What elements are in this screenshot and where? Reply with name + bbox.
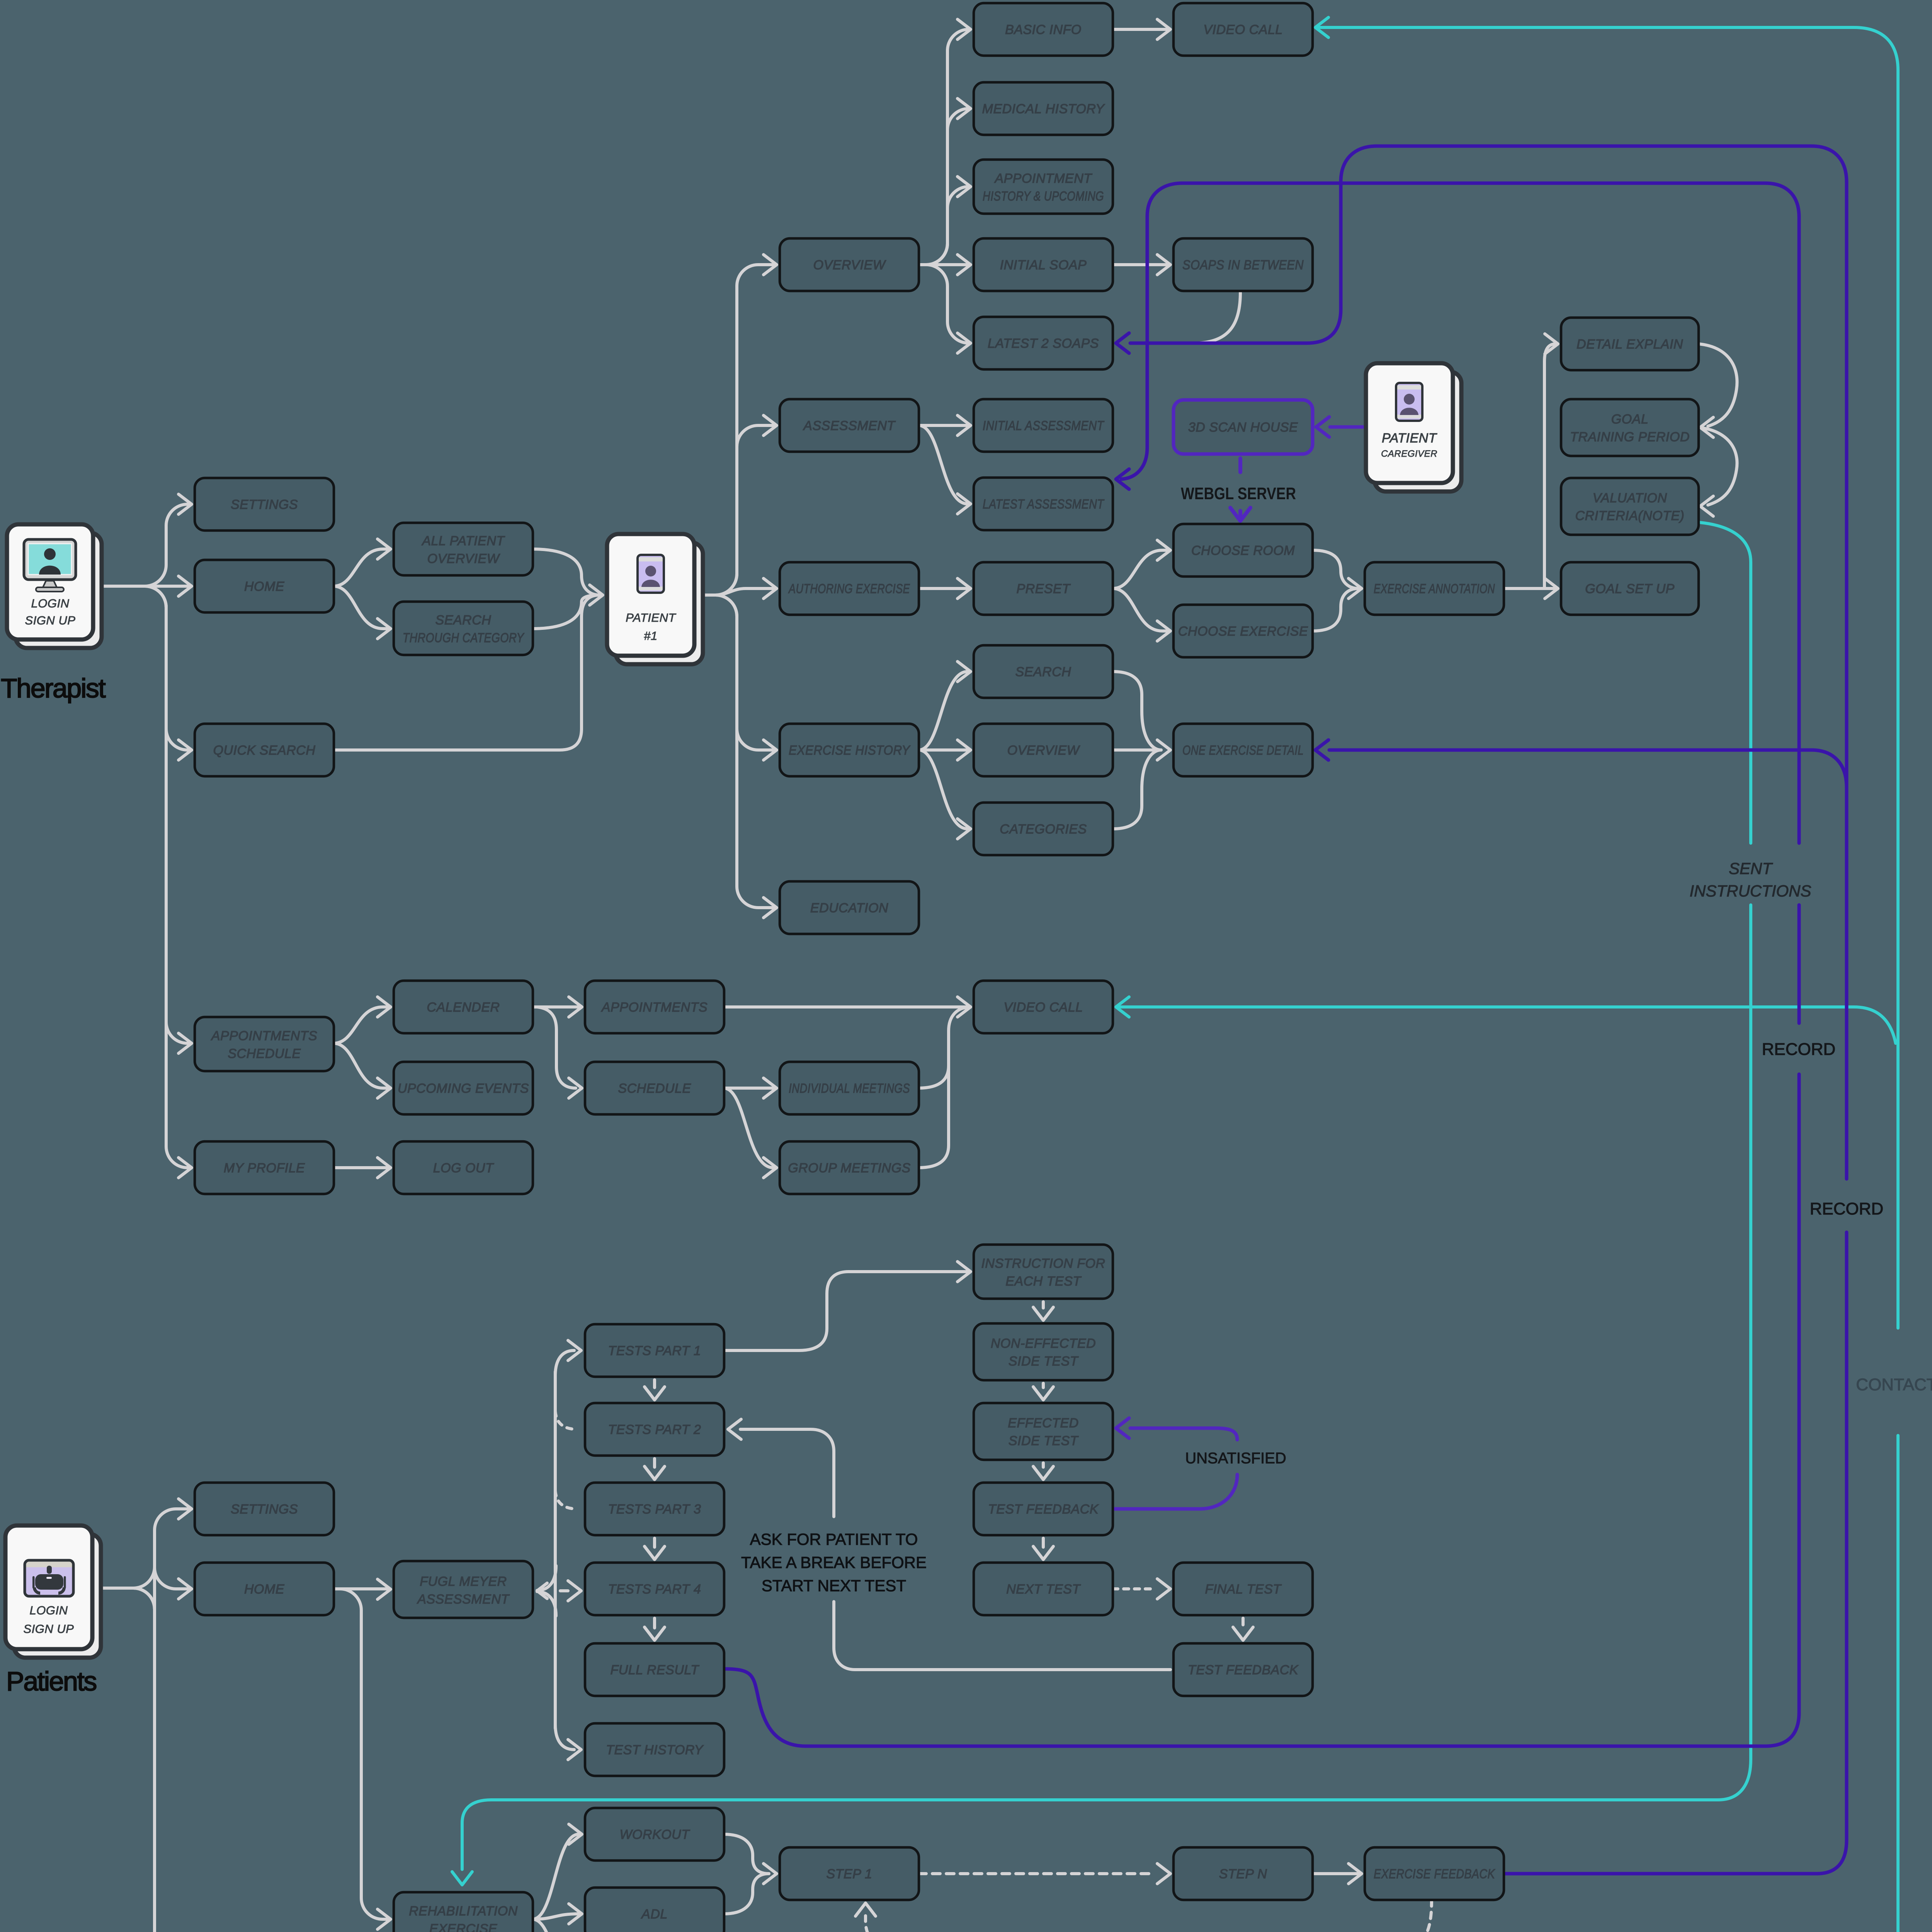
svg-text:LOGIN: LOGIN	[31, 597, 70, 610]
svg-text:SIGN UP: SIGN UP	[25, 614, 76, 627]
wire adl-to-step1	[724, 1864, 777, 1914]
svg-text:RECORD: RECORD	[1810, 1199, 1884, 1218]
box MY PROFILE	[195, 1141, 334, 1194]
wire chooseroom-to-annot	[1313, 550, 1359, 588]
svg-text:INSTRUCTION FOR: INSTRUCTION FOR	[981, 1256, 1105, 1271]
wire login-to-myprofile	[104, 586, 192, 1178]
box ADL	[585, 1888, 724, 1932]
box TESTS PART 4	[585, 1563, 724, 1615]
box EXERCISE HISTORY	[780, 724, 919, 776]
wire overview2-to-oned	[1113, 748, 1161, 752]
wire teal sent-instructions lower	[452, 905, 1751, 1885]
wire initialsoap-to-soapsinbetween	[1113, 255, 1170, 275]
svg-text:EXERCISE ANNOTATION: EXERCISE ANNOTATION	[1374, 582, 1495, 596]
svg-text:APPOINTMENTS: APPOINTMENTS	[211, 1029, 317, 1043]
wire chooseex-to-annot	[1313, 578, 1362, 631]
svg-text:BASIC INFO: BASIC INFO	[1005, 22, 1082, 37]
wire indigo record-B top	[1116, 146, 1847, 1179]
svg-text:ASSESSMENT: ASSESSMENT	[417, 1592, 510, 1607]
wire chain t4-full	[645, 1618, 665, 1640]
svg-text:TESTS PART 1: TESTS PART 1	[608, 1344, 701, 1358]
wire indigo record-B branch oned	[1315, 740, 1847, 787]
wire allpatient-to-p1	[532, 549, 600, 595]
svg-text:CALENDER: CALENDER	[427, 1000, 500, 1015]
wire plogin-to-home	[102, 1568, 192, 1609]
card therapist login	[7, 524, 102, 648]
box TESTS PART 3	[585, 1483, 724, 1535]
box FUGL MEYER ASSESSMENT	[394, 1561, 533, 1618]
wire p1-to-education	[705, 595, 777, 918]
box INDIVIDUAL MEETINGS	[780, 1062, 919, 1114]
svg-text:APPOINTMENT: APPOINTMENT	[994, 171, 1092, 186]
svg-text:MY PROFILE: MY PROFILE	[224, 1161, 305, 1175]
wire teal contact top	[1315, 17, 1898, 1328]
wire indigo record-A bottom	[724, 1074, 1799, 1746]
wire teal contact therapist-merge	[1116, 997, 1896, 1043]
wire soapsinbetween-curve	[1194, 293, 1240, 343]
wire apptsched-to-upcoming	[333, 1043, 391, 1098]
svg-text:OVERVIEW: OVERVIEW	[813, 258, 886, 272]
box APPOINTMENTS SCHEDULE	[195, 1017, 334, 1071]
wire apptsched-to-calender	[333, 997, 391, 1043]
wire indigo record-A top	[1116, 183, 1799, 843]
svg-text:VIDEO CALL: VIDEO CALL	[1003, 1000, 1083, 1015]
wire overview-to-medhistory	[919, 99, 971, 265]
wire overview-to-appthist	[919, 177, 971, 265]
wire calender-to-schedule	[537, 1007, 582, 1098]
svg-text:SCHEDULE: SCHEDULE	[618, 1081, 691, 1096]
wire fugl-junction-downarc	[537, 1592, 556, 1616]
svg-text:WORKOUT: WORKOUT	[619, 1827, 690, 1842]
arrow into fugl meyer	[537, 1583, 547, 1599]
svg-text:EDUCATION: EDUCATION	[810, 901, 888, 915]
wire groupmeet-to-videocall	[918, 1043, 949, 1168]
wire detail-to-goaltraining	[1699, 344, 1737, 437]
svg-text:FUGL MEYER: FUGL MEYER	[420, 1574, 507, 1589]
svg-text:PATIENT: PATIENT	[1382, 431, 1437, 446]
svg-text:TEST FEEDBACK: TEST FEEDBACK	[1188, 1663, 1299, 1677]
wire teal sent-instructions upper	[1699, 522, 1751, 843]
box GOAL TRAINING PERIOD	[1561, 399, 1699, 456]
svg-text:UPCOMING EVENTS: UPCOMING EVENTS	[398, 1081, 529, 1096]
box DETAIL EXPLAIN	[1561, 318, 1699, 370]
wire appointments-to-videocall	[724, 997, 971, 1017]
svg-text:OVERVIEW: OVERVIEW	[1007, 743, 1080, 758]
svg-text:SETTINGS: SETTINGS	[231, 497, 298, 512]
box OVERVIEW exercise-history	[974, 724, 1113, 776]
wire nexttest-to-finaltest	[1113, 1579, 1170, 1599]
svg-text:FULL RESULT: FULL RESULT	[610, 1663, 699, 1677]
svg-text:Patients: Patients	[6, 1666, 96, 1696]
box SEARCH	[974, 645, 1113, 698]
svg-text:ALL PATIENT: ALL PATIENT	[421, 534, 505, 548]
svg-text:CATEGORIES: CATEGORIES	[1000, 822, 1087, 837]
box INSTRUCTION FOR EACH TEST	[974, 1245, 1113, 1299]
wire purple caregiver-to-3dscan	[1316, 417, 1363, 437]
svg-text:TRAINING PERIOD: TRAINING PERIOD	[1570, 430, 1690, 444]
box INITIAL ASSESSMENT	[974, 399, 1113, 452]
wire home-to-searchcat	[333, 586, 391, 639]
svg-text:INDIVIDUAL MEETINGS: INDIVIDUAL MEETINGS	[789, 1081, 910, 1096]
svg-text:ONE EXERCISE DETAIL: ONE EXERCISE DETAIL	[1182, 743, 1304, 758]
svg-text:ASSESSMENT: ASSESSMENT	[803, 418, 896, 433]
box LOG OUT therapist	[394, 1141, 533, 1194]
svg-text:HOME: HOME	[244, 1582, 284, 1597]
svg-text:LATEST ASSESSMENT: LATEST ASSESSMENT	[983, 497, 1104, 512]
wire preset-to-chooseroom	[1113, 540, 1170, 588]
box SCHEDULE	[585, 1062, 724, 1114]
svg-text:AUTHORING EXERCISE: AUTHORING EXERCISE	[788, 582, 910, 596]
wire chain eff-fb	[1033, 1463, 1053, 1480]
box APPOINTMENTS	[585, 981, 724, 1033]
wire indigo record-B bottom	[1504, 1232, 1847, 1874]
wire searchcat-to-p1	[532, 595, 600, 629]
svg-text:APPOINTMENTS: APPOINTMENTS	[601, 1000, 707, 1015]
box AUTHORING EXERCISE	[780, 562, 919, 615]
box EXERCISE ANNOTATION	[1365, 562, 1504, 615]
box ALL PATIENT OVERVIEW	[394, 523, 533, 575]
svg-text:VALUATION: VALUATION	[1593, 491, 1667, 505]
wire calender-to-appointments	[532, 997, 582, 1017]
svg-text:NON-EFFECTED: NON-EFFECTED	[991, 1336, 1096, 1351]
box EXERCISE FEEDBACK	[1365, 1847, 1504, 1900]
card patient #1	[607, 534, 703, 664]
box ONE EXERCISE DETAIL	[1173, 724, 1313, 776]
svg-text:TESTS PART 4: TESTS PART 4	[608, 1582, 701, 1597]
box GOAL SET UP	[1561, 562, 1699, 615]
box TEST FEEDBACK 2	[1173, 1643, 1313, 1696]
svg-text:CAREGIVER: CAREGIVER	[1381, 449, 1437, 459]
wire categories-to-oned	[1113, 740, 1170, 829]
box VIDEO CALL top	[1173, 3, 1313, 56]
svg-text:LOGIN: LOGIN	[30, 1604, 68, 1617]
box VALUATION CRITERIA NOTE	[1561, 478, 1699, 535]
svg-text:INSTRUCTIONS: INSTRUCTIONS	[1690, 882, 1811, 900]
svg-text:CHOOSE ROOM: CHOOSE ROOM	[1191, 543, 1295, 558]
svg-text:Therapist: Therapist	[1, 673, 105, 703]
wire feedback2-loop-a	[834, 1602, 1170, 1670]
svg-text:HISTORY & UPCOMING: HISTORY & UPCOMING	[983, 189, 1104, 204]
wire phome-to-fugl	[333, 1579, 391, 1599]
box QUICK SEARCH	[195, 724, 334, 776]
svg-text:EXERCISE: EXERCISE	[429, 1922, 497, 1932]
box TEST HISTORY	[585, 1723, 724, 1776]
box VIDEO CALL therapist	[974, 981, 1113, 1033]
wire indigo record-A mid	[1798, 905, 1801, 1023]
wire chain t2-t3	[645, 1459, 665, 1480]
box OVERVIEW	[780, 238, 919, 291]
box CHOOSE ROOM	[1173, 524, 1313, 577]
wire authoring-to-preset	[919, 578, 971, 599]
wire rehab-to-adl	[532, 1904, 582, 1924]
box STEP N	[1173, 1847, 1313, 1900]
wire schedule-to-indmeet	[724, 1078, 777, 1098]
svg-text:TEST HISTORY: TEST HISTORY	[606, 1743, 704, 1757]
svg-text:SETTINGS: SETTINGS	[231, 1502, 298, 1517]
svg-text:EXERCISE FEEDBACK: EXERCISE FEEDBACK	[1374, 1867, 1495, 1881]
wire fugl-junction-uparc	[537, 1566, 556, 1590]
wire workout-to-step1	[724, 1834, 769, 1874]
wire login-to-home	[104, 576, 192, 596]
wire login-to-apptsched	[104, 586, 192, 1053]
box WORKOUT	[585, 1808, 724, 1861]
svg-text:WEBGL SERVER: WEBGL SERVER	[1181, 484, 1296, 503]
svg-text:LATEST 2 SOAPS: LATEST 2 SOAPS	[988, 336, 1099, 351]
box TESTS PART 2	[585, 1403, 724, 1456]
arrow webgl-to-chooseroom	[1230, 508, 1250, 521]
wire login-to-quicksearch	[104, 586, 192, 760]
svg-text:EFFECTED: EFFECTED	[1008, 1416, 1078, 1430]
svg-text:GOAL SET UP: GOAL SET UP	[1585, 582, 1675, 596]
svg-text:STEP N: STEP N	[1219, 1867, 1267, 1881]
svg-text:CHOOSE EXERCISE: CHOOSE EXERCISE	[1178, 624, 1308, 639]
svg-text:OVERVIEW: OVERVIEW	[427, 551, 500, 566]
box CHOOSE EXERCISE	[1173, 605, 1313, 657]
wire rehab-to-exhistp	[532, 1919, 582, 1932]
wire final-to-feedback2	[1233, 1618, 1253, 1640]
wire fugl-dash-tests2	[555, 1411, 577, 1429]
svg-text:SEARCH: SEARCH	[1015, 665, 1071, 679]
box TEST FEEDBACK	[974, 1483, 1113, 1535]
wire chain t3-t4	[645, 1538, 665, 1560]
box HOME	[195, 560, 334, 612]
svg-text:INITIAL SOAP: INITIAL SOAP	[1000, 258, 1087, 272]
svg-text:FINAL TEST: FINAL TEST	[1205, 1582, 1282, 1597]
wire fugl-to-testhistory	[555, 1725, 581, 1760]
svg-text:RECORD: RECORD	[1762, 1040, 1836, 1059]
svg-text:CRITERIA(NOTE): CRITERIA(NOTE)	[1575, 509, 1685, 523]
wire basicinfo-to-videocall	[1113, 19, 1170, 39]
svg-text:PRESET: PRESET	[1016, 582, 1071, 596]
wire annot-branch-detailexplain	[1544, 334, 1558, 587]
wire chain i-non	[1033, 1302, 1053, 1320]
wire fugl-to-tests1	[555, 1340, 581, 1376]
box HOME patients	[195, 1563, 334, 1615]
box INITIAL SOAP	[974, 238, 1113, 291]
box TESTS PART 1	[585, 1324, 724, 1377]
svg-text:ASK FOR PATIENT TO: ASK FOR PATIENT TO	[750, 1530, 918, 1548]
svg-text:QUICK SEARCH: QUICK SEARCH	[213, 743, 316, 758]
svg-text:EACH TEST: EACH TEST	[1005, 1274, 1082, 1289]
svg-text:TESTS PART 2: TESTS PART 2	[608, 1422, 701, 1437]
svg-text:HOME: HOME	[244, 579, 284, 594]
wire purple unsatisfied bottom	[1113, 1475, 1237, 1509]
wire fugl-row-dash	[560, 1589, 568, 1592]
box STEP 1	[780, 1847, 919, 1900]
box CALENDER	[394, 981, 533, 1033]
box ASSESSMENT	[780, 399, 919, 452]
wire chain non-eff	[1033, 1383, 1053, 1400]
wire teal contact bottom	[550, 1435, 1898, 1932]
wire p1-to-overview	[705, 255, 777, 595]
svg-text:PATIENT: PATIENT	[626, 611, 676, 624]
wire exhist-to-categories	[919, 750, 971, 839]
svg-text:REHABILITATION: REHABILITATION	[409, 1904, 518, 1918]
svg-text:LOG OUT: LOG OUT	[433, 1161, 494, 1175]
wire annot-to-goalsetup	[1504, 578, 1558, 599]
box BASIC INFO	[974, 3, 1113, 56]
svg-text:NEXT TEST: NEXT TEST	[1006, 1582, 1081, 1597]
box EFFECTED SIDE TEST	[974, 1403, 1113, 1460]
svg-text:MEDICAL HISTORY: MEDICAL HISTORY	[982, 102, 1105, 116]
box FULL RESULT	[585, 1643, 724, 1696]
svg-text:THROUGH CATEGORY: THROUGH CATEGORY	[403, 631, 525, 645]
wire goaltraining-to-valuation	[1699, 427, 1737, 516]
svg-text:SOAPS IN BETWEEN: SOAPS IN BETWEEN	[1182, 258, 1304, 272]
svg-text:GROUP MEETINGS: GROUP MEETINGS	[788, 1161, 910, 1175]
box PRESET	[974, 562, 1113, 615]
box NEXT TEST	[974, 1563, 1113, 1615]
card patients login	[5, 1526, 101, 1658]
wire overview-to-basicinfo	[919, 19, 971, 265]
svg-text:SCHEDULE: SCHEDULE	[228, 1046, 301, 1061]
wire fugl-trunk	[554, 1372, 557, 1728]
svg-text:EXERCISE HISTORY: EXERCISE HISTORY	[789, 743, 911, 758]
wire purple unsatisfied top	[1116, 1418, 1237, 1440]
svg-text:ADL: ADL	[641, 1907, 668, 1922]
box REHABILITATION EXERCISE	[394, 1892, 533, 1932]
wire chain fb-next	[1033, 1538, 1053, 1560]
wire indmeet-to-videocall	[918, 1007, 968, 1088]
wire tests1-to-instruction	[724, 1262, 971, 1350]
wire preset-to-chooseex	[1113, 588, 1170, 641]
wire chain t1-t2	[645, 1380, 665, 1400]
box GROUP MEETINGS	[780, 1141, 919, 1194]
wire myprofile-to-logout	[333, 1158, 391, 1178]
svg-text:UNSATISFIED: UNSATISFIED	[1185, 1450, 1286, 1467]
wire overview-to-initialsoap	[919, 255, 971, 275]
box FINAL TEST	[1173, 1563, 1313, 1615]
wire step1-to-stepn	[918, 1864, 1170, 1884]
wire phome-to-rehab	[333, 1589, 391, 1929]
wire stepn-to-exfeedback	[1313, 1864, 1362, 1884]
box LATEST 2 SOAPS	[974, 317, 1113, 369]
box SOAPS IN BETWEEN	[1173, 238, 1313, 291]
wire quicksearch-to-p1	[333, 585, 603, 750]
wire assessment-to-initassess	[919, 415, 971, 435]
wire plogin-to-myprofile	[102, 1588, 192, 1932]
box UPCOMING EVENTS	[394, 1062, 533, 1114]
wire home-to-allpatient	[333, 539, 391, 586]
wire plogin-to-apptsched	[102, 1588, 192, 1932]
box NON-EFFECTED SIDE TEST	[974, 1323, 1113, 1380]
box SETTINGS	[195, 478, 334, 531]
box CATEGORIES	[974, 803, 1113, 855]
wire plogin-to-settings	[102, 1499, 192, 1588]
wire rehab-to-workout	[532, 1824, 582, 1919]
box 3D SCAN HOUSE	[1173, 400, 1313, 454]
svg-text:3D SCAN HOUSE: 3D SCAN HOUSE	[1188, 420, 1298, 435]
wire purple 3dscan-dash	[1238, 458, 1242, 472]
svg-text:SENT: SENT	[1729, 859, 1773, 878]
wire fugl-dash-tests3	[555, 1491, 577, 1509]
svg-text:STEP 1: STEP 1	[827, 1867, 872, 1881]
wire exhist-to-search	[919, 662, 971, 750]
box APPOINTMENT HISTORY UPCOMING	[974, 160, 1113, 214]
svg-text:TESTS PART 3: TESTS PART 3	[608, 1502, 701, 1517]
svg-text:TEST FEEDBACK: TEST FEEDBACK	[988, 1502, 1099, 1517]
wire exhist-to-overview2	[919, 740, 971, 760]
wire overview-to-latest2soaps	[919, 265, 971, 353]
svg-text:VIDEO CALL: VIDEO CALL	[1203, 22, 1282, 37]
wire search-to-oned	[1113, 672, 1161, 750]
arrow into tests part 4	[568, 1581, 581, 1601]
svg-text:SIDE TEST: SIDE TEST	[1009, 1354, 1079, 1369]
card patient caregiver	[1366, 363, 1461, 492]
svg-text:GOAL: GOAL	[1611, 412, 1648, 427]
svg-text:INITIAL ASSESSMENT: INITIAL ASSESSMENT	[983, 418, 1104, 433]
svg-text:#1: #1	[644, 629, 657, 643]
svg-text:SIGN UP: SIGN UP	[24, 1622, 74, 1636]
wire schedule-to-groupmeet	[724, 1088, 777, 1178]
wire feedback2-loop-b	[728, 1419, 834, 1517]
svg-text:SEARCH: SEARCH	[435, 613, 492, 628]
wire p1-to-assessment	[705, 415, 777, 595]
svg-text:START NEXT TEST: START NEXT TEST	[762, 1577, 906, 1595]
box SETTINGS patients	[195, 1483, 334, 1535]
svg-text:TAKE A BREAK BEFORE: TAKE A BREAK BEFORE	[741, 1553, 927, 1571]
wire login-to-settings	[104, 494, 192, 586]
svg-text:DETAIL EXPLAIN: DETAIL EXPLAIN	[1577, 337, 1683, 352]
wire assessment-to-latestassess	[919, 425, 971, 514]
box SEARCH THROUGH CATEGORY	[394, 602, 533, 655]
box MEDICAL HISTORY	[974, 82, 1113, 135]
wire exfeedback-loop	[855, 1900, 1432, 1932]
wire p1-to-authoring	[705, 578, 777, 599]
wire p1-to-exhistory	[705, 595, 777, 760]
svg-text:SIDE TEST: SIDE TEST	[1009, 1434, 1079, 1448]
box EDUCATION	[780, 881, 919, 934]
svg-text:CONTACT: CONTACT	[1856, 1375, 1932, 1394]
box LATEST ASSESSMENT	[974, 478, 1113, 530]
